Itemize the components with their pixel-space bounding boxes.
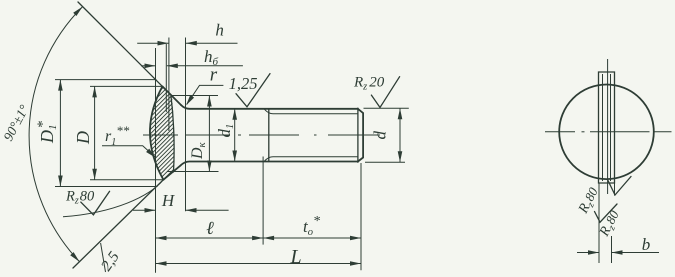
extension line: thread length boundary: [262, 157, 264, 245]
svg-text:d: d: [371, 131, 390, 140]
extension line: head-shank junction plane: [185, 38, 187, 212]
extension line: bolt end: [360, 163, 362, 270]
svg-text:L: L: [289, 246, 301, 268]
roughness Rz80 on countersink face: [81, 191, 110, 215]
shank top outline with fillet r: [181, 105, 358, 109]
slot wall extension right: [614, 183, 616, 196]
thread start line: [268, 109, 270, 162]
dimension L (total length): [156, 263, 362, 265]
leader r (head fillet radius): [187, 85, 224, 104]
countersunk head upper cone edge (extended construction): [78, 2, 162, 86]
svg-text:ℓ: ℓ: [206, 219, 214, 239]
roughness 1,25 on shank: [236, 74, 270, 107]
roughness check on right slot wall: [608, 177, 631, 196]
leader r1** (face edge radius): [102, 146, 155, 157]
end view head circle: [559, 85, 654, 180]
end view vertical centerline: [607, 59, 609, 194]
dimension h: [137, 42, 168, 44]
roughness check on left slot wall: [595, 204, 618, 222]
dimension d1 (shank diameter): [234, 109, 236, 162]
svg-text:Rz80: Rz80: [65, 189, 95, 207]
dimension l (unthreaded length): [156, 237, 264, 239]
slot inner edge right: [610, 74, 612, 181]
angular dimension arc 90 deg: [29, 7, 83, 262]
extension line: slot depth pair b: [168, 38, 170, 132]
thread minor diameter top line with runout: [265, 109, 358, 114]
dimension Dk (slot bottom diameter): [172, 95, 218, 97]
slot wall extension left: [598, 183, 600, 263]
roughness Rz20 on thread: [371, 77, 399, 108]
extension line: theoretical sharp plane (left datum): [155, 48, 157, 273]
end view horizontal centerline: [545, 131, 575, 133]
thread end chamfer circle line: [357, 108, 359, 162]
countersunk head lower cone edge (extended construction): [73, 180, 163, 268]
slot inner edge left: [602, 74, 604, 181]
dimension d (thread diameter): [364, 107, 409, 109]
bolt end face with chamfer corners: [358, 109, 363, 162]
head face construction arc extension: [63, 180, 163, 217]
extension line: slot depth pair a: [165, 44, 167, 112]
svg-text:h: h: [215, 21, 224, 40]
svg-text:b: b: [642, 235, 651, 254]
dimension D1* (countersink theoretical diameter): [55, 79, 157, 81]
svg-text:Rz20: Rz20: [353, 75, 385, 93]
svg-text:1,25: 1,25: [229, 74, 258, 93]
dimension b (slot width): [611, 236, 613, 263]
svg-text:r: r: [210, 65, 218, 86]
dimension h6: [141, 65, 156, 67]
dimension t0* (thread length): [263, 236, 274, 241]
head curved face arc: [150, 86, 163, 179]
shank bottom outline with fillet r: [181, 162, 358, 166]
slot outline: [599, 72, 615, 183]
slot bottom arc (section): [171, 96, 174, 172]
dimension H (head cone height): [133, 209, 156, 211]
chamfer note 2,5: [101, 243, 106, 272]
thread minor diameter bottom line with runout: [265, 157, 358, 161]
bolt axis centerline (main view): [143, 134, 178, 136]
svg-text:H: H: [161, 191, 176, 210]
dimension D (head diameter): [90, 85, 162, 87]
svg-text:D: D: [73, 131, 93, 145]
